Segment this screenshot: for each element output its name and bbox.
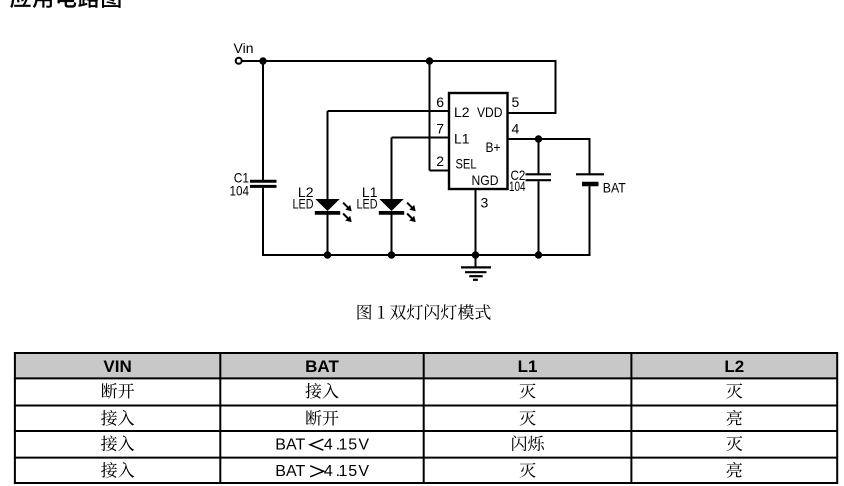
svg-text:4.15V: 4.15V	[324, 437, 370, 454]
svg-text:SEL: SEL	[456, 156, 477, 172]
svg-text:6: 6	[436, 94, 444, 110]
svg-text:BAT: BAT	[275, 437, 305, 454]
svg-text:3: 3	[481, 195, 489, 211]
svg-text:4.15V: 4.15V	[324, 463, 370, 480]
svg-text:LED: LED	[293, 196, 314, 212]
svg-text:NGD: NGD	[472, 172, 499, 188]
svg-text:7: 7	[436, 121, 444, 137]
svg-text:Vin: Vin	[234, 40, 254, 56]
svg-text:104: 104	[230, 183, 250, 199]
svg-text:2: 2	[436, 153, 444, 169]
svg-text:BAT: BAT	[305, 357, 339, 376]
svg-text:L2: L2	[454, 104, 470, 120]
svg-text:104: 104	[509, 178, 526, 194]
svg-text:5: 5	[512, 94, 520, 110]
svg-text:4: 4	[512, 121, 520, 137]
svg-text:LED: LED	[357, 196, 378, 212]
svg-text:VDD: VDD	[477, 104, 503, 120]
svg-text:BAT: BAT	[603, 180, 626, 196]
svg-text:L1: L1	[454, 131, 470, 147]
svg-text:VIN: VIN	[103, 357, 131, 376]
svg-text:L2: L2	[724, 357, 744, 376]
svg-text:B+: B+	[486, 139, 501, 155]
svg-text:L1: L1	[518, 357, 538, 376]
svg-text:BAT: BAT	[275, 463, 305, 480]
